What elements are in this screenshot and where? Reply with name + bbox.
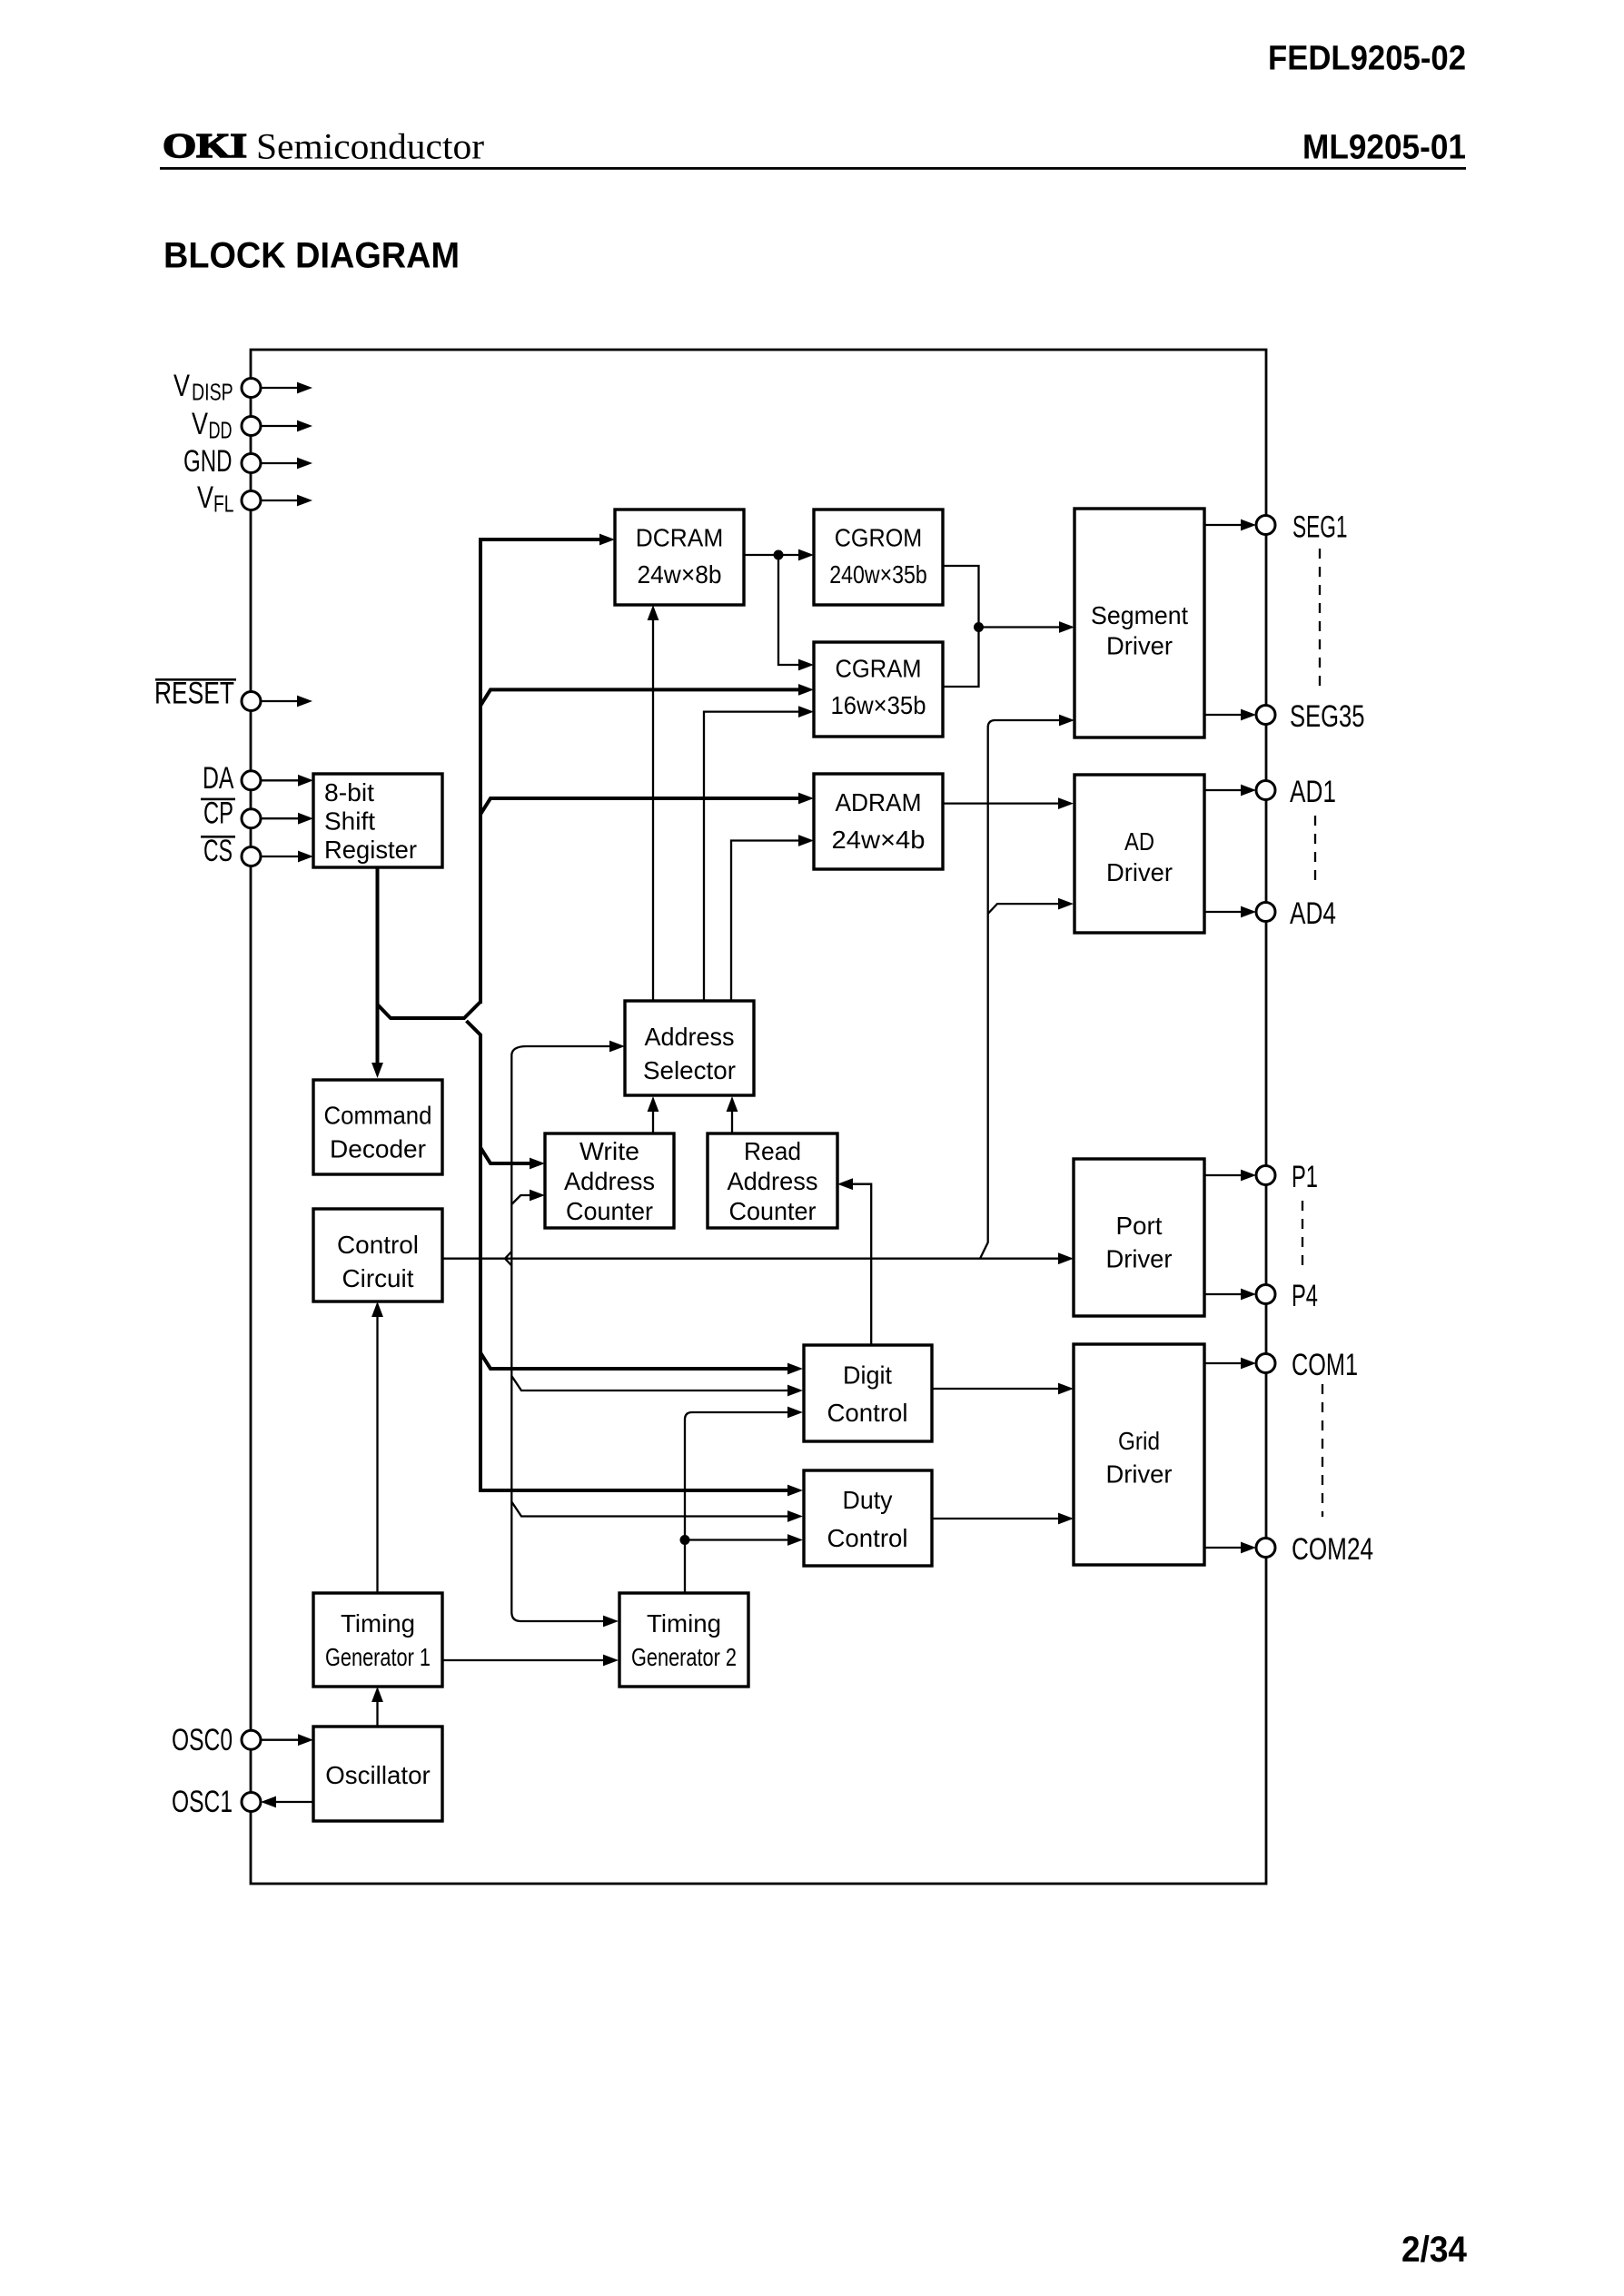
wire main vertical bus upper bbox=[480, 534, 615, 1004]
svg-text:Port: Port bbox=[1116, 1212, 1163, 1240]
block AD Driver bbox=[1074, 775, 1204, 933]
svg-text:24w×8b: 24w×8b bbox=[638, 560, 722, 589]
wire Address Selector to CGRAM input 3 bbox=[704, 706, 814, 1001]
pin DA bbox=[203, 761, 313, 796]
svg-text:CS: CS bbox=[203, 834, 233, 868]
svg-text:OSC0: OSC0 bbox=[172, 1723, 233, 1757]
wire junction down to CGRAM input 1 bbox=[778, 555, 814, 670]
wire Digit Control to Grid Driver bbox=[932, 1383, 1074, 1395]
svg-text:Address: Address bbox=[728, 1167, 818, 1195]
svg-text:Write: Write bbox=[579, 1137, 639, 1165]
wire control vertical line to Address Selector and Timing Generator 2 bbox=[505, 1041, 625, 1628]
block Timing Generator 1 bbox=[313, 1593, 442, 1687]
wire DCRAM to CGROM with junction bbox=[744, 549, 814, 561]
svg-text:COM1: COM1 bbox=[1292, 1348, 1358, 1382]
wire CGROM output to Segment Driver bbox=[943, 566, 1074, 687]
svg-text:Control: Control bbox=[827, 1399, 908, 1427]
dashed range SEG1 to SEG35 bbox=[1319, 549, 1321, 693]
svg-text:V: V bbox=[197, 480, 213, 515]
svg-text:ML9205-01: ML9205-01 bbox=[1302, 129, 1466, 167]
block Address Selector bbox=[625, 1001, 754, 1095]
svg-text:SEG35: SEG35 bbox=[1290, 699, 1365, 734]
svg-text:Timing: Timing bbox=[647, 1609, 721, 1638]
dashed range P1 to P4 bbox=[1302, 1201, 1303, 1272]
wire ADRAM output to AD Driver bbox=[943, 797, 1074, 809]
block ADRAM 24wx4b bbox=[814, 774, 943, 869]
svg-text:Control: Control bbox=[337, 1231, 419, 1259]
block Duty Control bbox=[804, 1470, 932, 1566]
pin AD4 bbox=[1204, 896, 1336, 931]
svg-text:DD: DD bbox=[209, 417, 233, 444]
svg-text:Counter: Counter bbox=[566, 1197, 653, 1225]
pin CP (active low) bbox=[201, 796, 313, 830]
svg-text:Command: Command bbox=[324, 1102, 432, 1130]
svg-text:DISP: DISP bbox=[192, 379, 233, 406]
header part number ML9205-01 bbox=[1302, 129, 1466, 167]
svg-text:Read: Read bbox=[744, 1137, 801, 1165]
svg-text:2/34: 2/34 bbox=[1401, 2230, 1468, 2270]
svg-text:COM24: COM24 bbox=[1292, 1532, 1373, 1567]
svg-text:8-bit: 8-bit bbox=[324, 778, 374, 807]
svg-text:OSC1: OSC1 bbox=[172, 1785, 233, 1819]
pin COM24 bbox=[1204, 1532, 1373, 1567]
svg-text:FEDL9205-02: FEDL9205-02 bbox=[1268, 40, 1466, 78]
wire Timing Generator 1 to Timing Generator 2 bbox=[442, 1655, 619, 1667]
wire Oscillator to Timing Generator 1 bbox=[371, 1687, 383, 1727]
dashed range AD1 to AD4 bbox=[1314, 816, 1316, 887]
svg-text:CGROM: CGROM bbox=[835, 524, 923, 552]
title BLOCK DIAGRAM bbox=[163, 235, 460, 275]
pin SEG1 bbox=[1204, 510, 1348, 544]
svg-text:P1: P1 bbox=[1292, 1160, 1318, 1194]
svg-text:Shift: Shift bbox=[324, 807, 375, 836]
block Control Circuit bbox=[313, 1209, 442, 1301]
svg-text:Address: Address bbox=[645, 1023, 735, 1051]
svg-text:CGRAM: CGRAM bbox=[836, 655, 922, 683]
svg-text:Circuit: Circuit bbox=[342, 1264, 414, 1292]
wire control vertical to Segment Driver input 2 and AD Driver input 2 bbox=[980, 715, 1074, 1259]
pin VFL bbox=[197, 480, 312, 518]
svg-text:Decoder: Decoder bbox=[330, 1135, 426, 1163]
svg-text:RESET: RESET bbox=[154, 677, 234, 711]
svg-text:Oscillator: Oscillator bbox=[325, 1761, 431, 1789]
pin P1 bbox=[1204, 1160, 1318, 1194]
svg-text:Duty: Duty bbox=[843, 1486, 893, 1514]
svg-text:Grid: Grid bbox=[1118, 1427, 1160, 1455]
wire Control Circuit output to Port Driver bbox=[442, 1252, 1074, 1264]
block Write Address Counter bbox=[545, 1133, 674, 1228]
wire bus merge from shift register to main vertical bus bbox=[378, 1002, 481, 1018]
svg-text:Digit: Digit bbox=[843, 1361, 892, 1390]
svg-text:24w×4b: 24w×4b bbox=[832, 826, 926, 854]
header Semiconductor bbox=[256, 126, 484, 167]
wire main vertical bus lower bbox=[467, 1021, 804, 1496]
pin CS (active low) bbox=[201, 834, 313, 868]
svg-text:ADRAM: ADRAM bbox=[836, 788, 922, 816]
svg-text:Register: Register bbox=[324, 836, 417, 864]
pin OSC1 bbox=[172, 1785, 313, 1819]
svg-text:SEG1: SEG1 bbox=[1292, 510, 1348, 544]
pin OSC0 bbox=[172, 1723, 313, 1757]
svg-text:Address: Address bbox=[564, 1167, 655, 1195]
wire Timing Generator 2 output to Digit and Duty Control input 3 bbox=[680, 1407, 804, 1593]
svg-text:Control: Control bbox=[827, 1524, 908, 1552]
wire bus tap to ADRAM bbox=[480, 793, 814, 815]
wire bus tap to Digit Control bbox=[480, 1353, 803, 1375]
svg-text:P4: P4 bbox=[1292, 1279, 1318, 1313]
svg-text:Segment: Segment bbox=[1091, 601, 1188, 629]
svg-text:Generator 2: Generator 2 bbox=[631, 1643, 737, 1671]
wire Read Address Counter to Address Selector bbox=[727, 1096, 738, 1133]
svg-text:240w×35b: 240w×35b bbox=[829, 560, 927, 589]
wire Address Selector to DCRAM bbox=[648, 605, 659, 1001]
wire Digit Control to Read Address Counter feedback bbox=[837, 1178, 871, 1345]
svg-text:AD: AD bbox=[1124, 827, 1154, 856]
pin RESET (active low) bbox=[154, 677, 312, 711]
pin P4 bbox=[1204, 1279, 1318, 1313]
footer page number 2/34 bbox=[1401, 2230, 1468, 2270]
block Command Decoder bbox=[313, 1080, 442, 1174]
svg-text:AD1: AD1 bbox=[1290, 775, 1336, 809]
pin VDD bbox=[192, 407, 312, 444]
header rule bbox=[160, 167, 1466, 170]
svg-text:Driver: Driver bbox=[1106, 1460, 1173, 1489]
svg-text:16w×35b: 16w×35b bbox=[831, 691, 926, 719]
wire bus shift register to command decoder bbox=[371, 867, 383, 1078]
svg-text:OKI: OKI bbox=[163, 127, 247, 165]
header doc number FEDL9205-02 bbox=[1268, 40, 1466, 78]
svg-text:Timing: Timing bbox=[341, 1609, 415, 1638]
svg-text:Generator 1: Generator 1 bbox=[325, 1643, 431, 1671]
svg-text:Selector: Selector bbox=[643, 1056, 736, 1084]
block Oscillator bbox=[313, 1727, 442, 1821]
svg-text:BLOCK DIAGRAM: BLOCK DIAGRAM bbox=[163, 235, 460, 275]
wire Timing Generator 1 to Control Circuit bbox=[371, 1301, 383, 1593]
pin VDISP bbox=[173, 369, 312, 406]
wire Write Address Counter to Address Selector bbox=[648, 1096, 659, 1133]
block Port Driver bbox=[1074, 1159, 1204, 1316]
wire bus tap to CGRAM bbox=[480, 684, 814, 706]
block Read Address Counter bbox=[708, 1133, 837, 1228]
block 8-bit Shift Register bbox=[313, 774, 442, 867]
block CGRAM 16wx35b bbox=[814, 642, 943, 737]
pin SEG35 bbox=[1204, 699, 1365, 734]
svg-text:Driver: Driver bbox=[1106, 632, 1173, 660]
block CGROM 240wx35b bbox=[814, 510, 943, 605]
chip outer border bbox=[251, 350, 1266, 1884]
block Grid Driver bbox=[1074, 1344, 1204, 1565]
dashed range COM1 to COM24 bbox=[1322, 1384, 1323, 1517]
svg-text:FL: FL bbox=[213, 490, 234, 518]
wire tap to Duty Control input 2 bbox=[511, 1502, 803, 1522]
pin AD1 bbox=[1204, 775, 1336, 809]
pin COM1 bbox=[1204, 1348, 1358, 1382]
svg-text:V: V bbox=[192, 407, 208, 441]
wire tap to Write Address Counter input 2 bbox=[511, 1190, 545, 1204]
wire Address Selector to ADRAM input 2 bbox=[731, 835, 814, 1001]
svg-text:CP: CP bbox=[203, 796, 233, 830]
svg-text:Driver: Driver bbox=[1106, 858, 1173, 886]
block Segment Driver bbox=[1074, 509, 1204, 737]
wire bus tap to Write Address Counter bbox=[480, 1148, 545, 1170]
svg-text:Semiconductor: Semiconductor bbox=[256, 126, 484, 167]
header OKI logo bbox=[163, 127, 247, 165]
svg-text:DA: DA bbox=[203, 761, 234, 796]
wire tap to Digit Control input 2 bbox=[511, 1376, 803, 1396]
svg-text:V: V bbox=[173, 369, 190, 403]
block DCRAM 24wx8b bbox=[615, 510, 744, 605]
pin GND bbox=[183, 444, 312, 479]
svg-text:Driver: Driver bbox=[1106, 1245, 1173, 1273]
svg-text:DCRAM: DCRAM bbox=[636, 524, 724, 552]
wire Duty Control to Grid Driver bbox=[932, 1513, 1074, 1525]
block Digit Control bbox=[804, 1345, 932, 1441]
svg-text:Counter: Counter bbox=[729, 1197, 817, 1225]
block Timing Generator 2 bbox=[619, 1593, 748, 1687]
svg-text:GND: GND bbox=[183, 444, 233, 479]
svg-text:AD4: AD4 bbox=[1290, 896, 1336, 931]
